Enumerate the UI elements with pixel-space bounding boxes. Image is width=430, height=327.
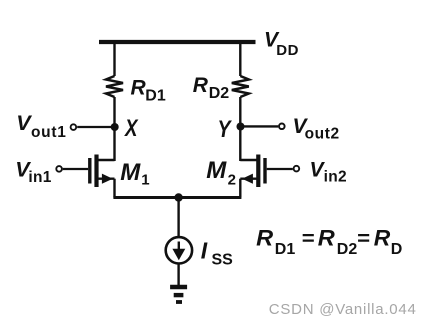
transistor M2 source wire with arrow bbox=[240, 177, 258, 179]
svg-text:D: D bbox=[391, 241, 403, 258]
wire Vin1 to M1 gate bbox=[63, 168, 88, 170]
svg-text:out1: out1 bbox=[31, 124, 67, 141]
wire node X to M1 drain bbox=[113, 127, 115, 161]
resistor RD2 bbox=[232, 76, 249, 97]
transistor M2 gate bar bbox=[263, 158, 266, 184]
node X junction dot bbox=[111, 123, 119, 131]
tail junction dot bbox=[174, 193, 182, 201]
svg-text:D1: D1 bbox=[275, 241, 296, 258]
wire RD2 to node Y bbox=[239, 97, 241, 127]
svg-text:SS: SS bbox=[212, 251, 234, 268]
svg-text:D2: D2 bbox=[337, 241, 358, 258]
transistor M1 channel bar bbox=[94, 155, 98, 188]
transistor M1 drain connection bbox=[97, 159, 115, 161]
svg-text:1: 1 bbox=[141, 171, 149, 188]
transistor M2 channel bar bbox=[256, 155, 260, 188]
terminal Vin1 (open circle) bbox=[56, 166, 62, 172]
ground symbol bbox=[170, 285, 187, 289]
svg-text:R: R bbox=[374, 226, 391, 251]
transistor M2 source arrow bbox=[242, 174, 253, 184]
svg-text:2: 2 bbox=[228, 171, 236, 188]
svg-text:R: R bbox=[256, 226, 273, 251]
wire VDD rail bbox=[99, 40, 256, 44]
wire tail node to current source bbox=[177, 198, 179, 237]
svg-text:CSDN @Vanilla.044: CSDN @Vanilla.044 bbox=[269, 301, 417, 318]
svg-text:X: X bbox=[123, 115, 139, 142]
svg-text:I: I bbox=[201, 237, 208, 263]
svg-text:DD: DD bbox=[276, 42, 299, 59]
svg-text:=: = bbox=[302, 228, 315, 250]
svg-text:D2: D2 bbox=[209, 85, 230, 102]
svg-text:V: V bbox=[16, 111, 32, 135]
transistor M2 drain connection bbox=[240, 159, 258, 161]
wire current source to ground bbox=[177, 264, 179, 288]
transistor M1 source arrow bbox=[102, 174, 113, 184]
terminal Vin2 (open circle) bbox=[294, 166, 300, 172]
wire RD1 to node X bbox=[113, 97, 115, 127]
transistor M1 source wire with arrow bbox=[97, 177, 115, 179]
wire tail rail bbox=[113, 196, 241, 199]
svg-text:out2: out2 bbox=[305, 125, 340, 142]
resistor RD1 bbox=[106, 76, 123, 97]
svg-text:M: M bbox=[206, 157, 227, 184]
svg-text:=: = bbox=[357, 228, 370, 250]
wire node X to Vout1 terminal bbox=[77, 126, 114, 128]
svg-text:R: R bbox=[131, 77, 147, 100]
terminal Vout1 (open circle) bbox=[71, 124, 77, 130]
svg-text:in1: in1 bbox=[28, 169, 51, 186]
wire M2 source down to tail bbox=[239, 179, 241, 198]
svg-text:Y: Y bbox=[218, 116, 233, 143]
wire M1 source down to tail bbox=[113, 179, 115, 198]
wire node Y to Vout2 terminal bbox=[240, 125, 278, 127]
wire node Y to M2 drain bbox=[239, 127, 241, 162]
svg-text:M: M bbox=[120, 159, 141, 186]
wire M2 gate to Vin2 bbox=[267, 168, 293, 170]
svg-text:R: R bbox=[318, 226, 335, 251]
current source arrow stem bbox=[178, 242, 180, 251]
terminal Vout2 (open circle) bbox=[279, 124, 285, 130]
wire left branch rail to resistor RD1 bbox=[113, 42, 115, 76]
wire right branch rail to resistor RD2 bbox=[239, 42, 241, 76]
transistor M1 gate bar bbox=[88, 158, 91, 184]
svg-text:R: R bbox=[193, 74, 209, 97]
current source arrow head bbox=[172, 249, 185, 261]
current source ISS circle bbox=[166, 237, 192, 263]
svg-text:D1: D1 bbox=[145, 88, 166, 105]
svg-text:in2: in2 bbox=[324, 168, 347, 185]
node Y junction dot bbox=[237, 123, 245, 131]
